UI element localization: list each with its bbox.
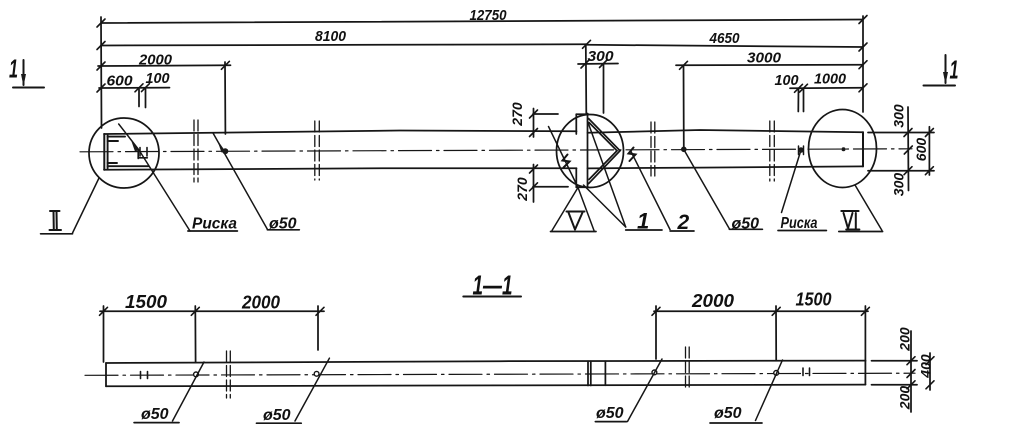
svg-text:2000: 2000 (138, 52, 173, 69)
svg-text:1500: 1500 (125, 292, 167, 312)
svg-text:ø50: ø50 (141, 406, 169, 423)
svg-text:400: 400 (918, 354, 934, 379)
svg-text:Риска: Риска (781, 215, 818, 232)
svg-text:2000: 2000 (241, 293, 280, 313)
svg-text:ø50: ø50 (596, 405, 624, 422)
svg-text:1: 1 (950, 55, 959, 85)
svg-text:2000: 2000 (691, 291, 734, 311)
svg-text:1—1: 1—1 (473, 270, 513, 301)
svg-text:2: 2 (677, 211, 690, 234)
svg-text:1: 1 (9, 54, 18, 84)
svg-text:100: 100 (775, 72, 800, 89)
svg-text:300: 300 (891, 173, 907, 197)
svg-text:270: 270 (509, 102, 525, 127)
svg-text:ø50: ø50 (714, 405, 742, 422)
svg-text:1000: 1000 (814, 71, 847, 88)
svg-text:270: 270 (514, 177, 530, 202)
svg-text:300: 300 (588, 48, 615, 65)
svg-text:ø50: ø50 (732, 215, 760, 232)
svg-text:600: 600 (913, 138, 929, 162)
svg-text:ø50: ø50 (263, 407, 291, 424)
svg-text:4650: 4650 (709, 30, 740, 47)
svg-text:100: 100 (146, 70, 171, 87)
svg-text:Риска: Риска (192, 216, 237, 233)
svg-text:ø50: ø50 (269, 216, 297, 233)
svg-text:8100: 8100 (315, 28, 347, 45)
svg-text:3000: 3000 (747, 50, 782, 67)
svg-text:300: 300 (891, 104, 907, 128)
svg-text:1: 1 (637, 209, 649, 234)
svg-text:200: 200 (897, 386, 913, 411)
svg-text:200: 200 (897, 327, 913, 352)
svg-text:12750: 12750 (470, 7, 508, 24)
svg-text:1500: 1500 (796, 290, 832, 310)
svg-text:600: 600 (107, 73, 134, 90)
